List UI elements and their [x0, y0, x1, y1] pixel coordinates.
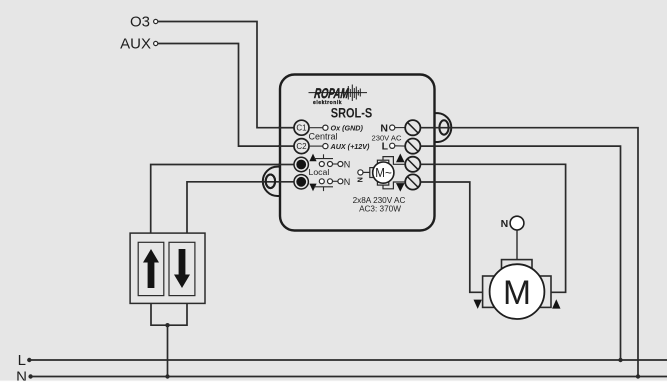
svg-text:AUX (+12V): AUX (+12V): [330, 142, 371, 151]
screw terminal L: [405, 139, 420, 154]
svg-text:M: M: [503, 274, 531, 312]
hole of left ear: [266, 175, 275, 189]
wire stub through C2 left: [278, 145, 294, 147]
pin AUX (+12V): [309, 142, 370, 151]
mounting ear right: [434, 113, 452, 142]
motor M~ inside module: [356, 157, 406, 189]
wall switch: [130, 233, 205, 303]
mounting ear left: [263, 167, 281, 196]
wire switch common to N bus: [151, 303, 187, 378]
svg-text:O3: O3: [130, 14, 150, 31]
triangle down at motor left: [474, 300, 482, 309]
svg-text:C2: C2: [296, 142, 307, 151]
screw terminal up: [405, 157, 420, 172]
up arrow: [143, 249, 159, 288]
svg-text:L: L: [382, 141, 389, 153]
wire stub through C1 left: [278, 127, 294, 129]
svg-text:C1: C1: [296, 124, 307, 133]
N bus: [16, 369, 667, 382]
node N motor pigtail: [501, 216, 524, 230]
wire AUX to C2: [158, 44, 294, 147]
screw terminal N: [405, 120, 420, 135]
wire local-up input to wall switch: [151, 165, 294, 234]
svg-text:AUX: AUX: [120, 36, 151, 53]
triangle down local: [309, 184, 316, 192]
pushbutton symbol up: [314, 154, 350, 169]
svg-text:Local: Local: [309, 167, 330, 177]
svg-text:N: N: [16, 369, 27, 382]
svg-text:N: N: [501, 218, 509, 230]
logo ROPAM: [309, 85, 368, 106]
module SROL-S body: [280, 75, 435, 231]
triangle up local: [309, 154, 316, 162]
svg-text:Central: Central: [309, 132, 338, 142]
terminal C1: [294, 120, 309, 135]
pin L: [390, 143, 406, 148]
triangle down relay: [396, 183, 405, 192]
wire screw L to L bus: [420, 146, 622, 362]
svg-text:N: N: [344, 160, 351, 170]
wire O3 to C1: [158, 22, 294, 128]
node O3: [130, 14, 158, 31]
wire stub through left edge to local-down terminal: [262, 181, 294, 183]
L bus: [18, 352, 667, 369]
triangle up relay: [396, 154, 405, 163]
svg-text:ROPAM: ROPAM: [314, 85, 350, 101]
wire screw N to N bus: [420, 128, 640, 379]
pin N: [390, 125, 406, 130]
pushbutton symbol down: [314, 177, 350, 191]
triangle up at motor right: [552, 299, 560, 308]
terminal C2: [294, 139, 309, 154]
motor M external: [483, 230, 551, 319]
wire screw up to motor right: [420, 164, 565, 292]
pin Ox (GND): [309, 123, 363, 132]
svg-text:SROL-S: SROL-S: [331, 106, 373, 121]
node AUX: [120, 36, 158, 53]
svg-text:N: N: [356, 177, 365, 182]
svg-text:M~: M~: [375, 166, 392, 180]
terminal local-up: [294, 157, 308, 171]
wire screw down to motor left: [420, 182, 482, 292]
terminal local-down: [294, 175, 308, 189]
wire local-down input to wall switch: [187, 182, 294, 233]
svg-text:AC3: 370W: AC3: 370W: [359, 204, 401, 213]
down arrow: [174, 249, 190, 288]
wire stub through left edge to local-up terminal: [278, 164, 294, 166]
screw terminal down: [405, 174, 420, 189]
svg-text:N: N: [344, 177, 351, 187]
svg-text:L: L: [18, 352, 26, 369]
